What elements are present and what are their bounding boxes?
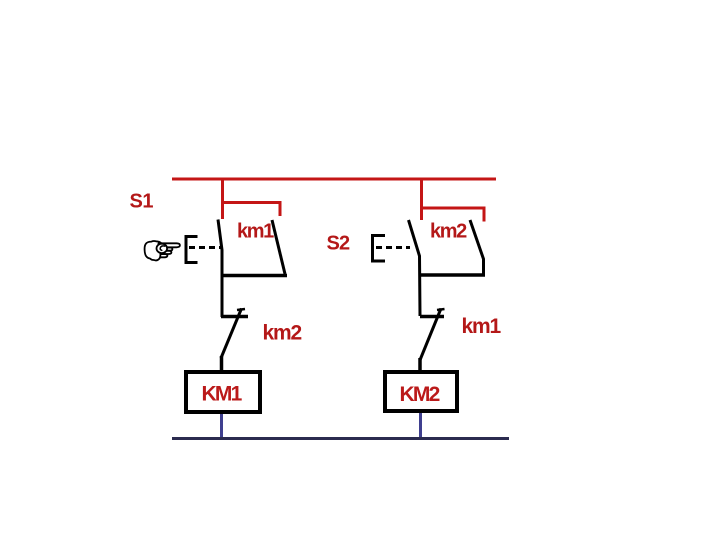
contact km2 NC tick <box>237 309 245 310</box>
pushbutton S2 actuator bracket <box>373 236 386 262</box>
svg-text:km1: km1 <box>237 221 274 243</box>
svg-text:S2: S2 <box>327 233 351 255</box>
coil KM1 box <box>186 372 260 412</box>
contact km2 NC blade <box>221 309 242 359</box>
wire: right branch red drop <box>420 179 423 220</box>
pushbutton S2 linkage (dashed) <box>376 246 410 249</box>
pushbutton S1 actuator bracket <box>186 237 198 263</box>
pushbutton S2 blade <box>409 220 421 316</box>
svg-text:km2: km2 <box>430 221 467 243</box>
contact km2 NO blade <box>470 220 484 275</box>
pushbutton S1 blade <box>218 220 222 318</box>
svg-text:km2: km2 <box>263 322 302 345</box>
pushbutton S1 linkage (dashed) <box>189 246 221 249</box>
contact km1 NO blade <box>272 220 285 274</box>
wire: right red bracket to km2 contact <box>422 208 485 222</box>
wire: right parallel tie <box>419 273 485 277</box>
wire: KM1 to neutral (blue stub) <box>220 414 223 438</box>
red supply bus top <box>172 178 496 181</box>
svg-text:km1: km1 <box>462 315 502 338</box>
contact km1 NC tick <box>437 309 445 310</box>
contact km1 NC bar (right branch) <box>420 315 444 319</box>
contact km2 NC bar (left branch) <box>221 315 248 319</box>
svg-text:S1: S1 <box>130 191 154 213</box>
wire: into KM1 coil <box>220 356 224 371</box>
hand pointer icon <box>145 241 180 260</box>
wire: into KM2 coil <box>418 358 422 371</box>
svg-text:KM1: KM1 <box>202 383 243 406</box>
contact km1 NC blade <box>420 309 441 361</box>
blue neutral bus bottom <box>172 437 509 440</box>
coil KM2 box <box>385 372 457 411</box>
wire: left red bracket to km1 contact <box>223 203 281 217</box>
wire: KM2 to neutral (blue stub) <box>419 413 422 438</box>
wire: left branch red drop <box>221 179 224 219</box>
wire: left parallel tie <box>221 274 287 278</box>
svg-text:KM2: KM2 <box>400 383 440 406</box>
